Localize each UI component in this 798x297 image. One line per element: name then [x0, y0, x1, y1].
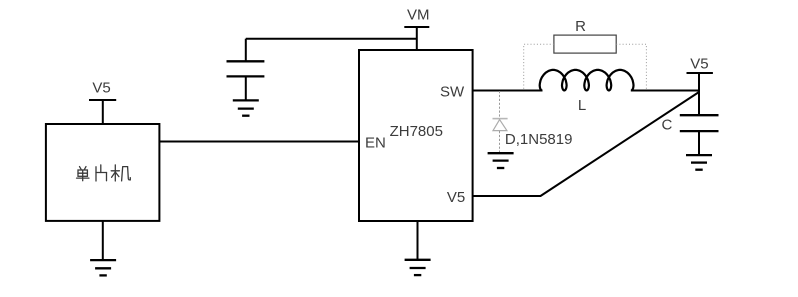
wire V5 bar to output node and capacitor C [698, 73, 700, 115]
diode D (optional, 1N5819) cathode bar [493, 118, 508, 120]
ground (diode) [488, 153, 514, 168]
svg-text:VM: VM [407, 6, 430, 23]
wire EN: microcontroller to U1 EN pin [159, 141, 359, 143]
power symbol V5 (left) [89, 100, 116, 124]
svg-text:L: L [578, 97, 586, 114]
wire SW to inductor L [473, 90, 543, 92]
svg-text:C: C [662, 117, 673, 134]
wire inductor L to output node [631, 90, 699, 92]
regulator U1 ZH7805 box [359, 50, 473, 221]
char 单 [77, 167, 89, 181]
resistor R (optional, box) [554, 35, 616, 53]
svg-text:SW: SW [440, 84, 465, 101]
block U2 microcontroller box [46, 124, 159, 221]
svg-text:R: R [575, 18, 586, 35]
svg-text:D,1N5819: D,1N5819 [505, 131, 573, 148]
diode D triangle [493, 120, 507, 131]
capacitor C2 (input cap) [227, 39, 265, 101]
svg-text:V5: V5 [447, 189, 465, 206]
char 机 [111, 165, 130, 181]
ground (output cap) [686, 155, 712, 170]
ground (left box) [90, 260, 116, 275]
dotted connection R left [524, 44, 554, 90]
svg-text:EN: EN [365, 135, 386, 152]
dashed connection diode D bottom [499, 131, 501, 153]
svg-text:V5: V5 [690, 56, 708, 73]
ground (U1) [405, 260, 431, 275]
label 单片机 (drawn strokes) [77, 165, 131, 181]
ground (input cap) [233, 100, 259, 115]
wire V5 pin of U1 [473, 92, 699, 196]
svg-text:ZH7805: ZH7805 [390, 123, 443, 140]
char 片 [96, 165, 107, 181]
wire U1 bottom to ground [417, 221, 419, 260]
wire VM to capacitor C2 [246, 38, 417, 40]
svg-text:V5: V5 [92, 80, 110, 97]
wire box bottom to ground (left) [102, 221, 104, 260]
power symbol V5 (output) [687, 72, 713, 74]
inductor L [540, 70, 634, 91]
capacitor C (output) [680, 115, 719, 155]
power symbol VM [404, 27, 429, 50]
dotted connection R right [616, 44, 646, 90]
dashed connection diode D top [499, 91, 501, 118]
